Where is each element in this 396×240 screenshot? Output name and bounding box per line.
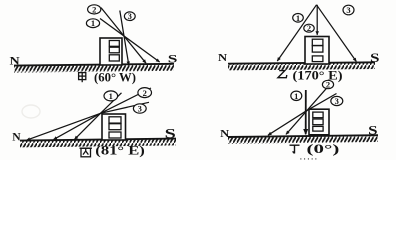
svg-text:1: 1 — [109, 91, 113, 101]
label circled 3 (bing) — [133, 104, 146, 114]
svg-text:1: 1 — [294, 91, 298, 101]
label circled 3 (jia) — [124, 11, 135, 21]
label circled 2 (ding) — [322, 80, 333, 90]
scan artifact faint circle — [22, 105, 40, 118]
svg-text:.....: ..... — [300, 154, 319, 161]
window 1 (ding) — [313, 112, 323, 118]
label circled 3 (ding) — [331, 96, 343, 106]
svg-text:(170° E): (170° E) — [293, 68, 343, 83]
building (ding) — [309, 109, 329, 135]
svg-text:1: 1 — [91, 18, 95, 28]
caption glyph JIA — [79, 73, 86, 83]
wire right slope ray 3 (yi) — [317, 5, 357, 62]
ground hatch band (bing) — [20, 139, 176, 147]
caption glyph DING — [290, 145, 300, 153]
svg-text:1: 1 — [296, 13, 300, 23]
caption glyph YI — [278, 71, 287, 78]
svg-text:N: N — [218, 53, 228, 64]
svg-text:3: 3 — [138, 104, 142, 114]
window 3 (ding) — [313, 126, 323, 131]
wire vertical ray 1 (ding) — [305, 90, 307, 134]
window 1 (bing) — [109, 117, 121, 123]
ground hatch band (jia) — [14, 64, 174, 72]
svg-text:2: 2 — [92, 4, 96, 14]
wire ray 1 (bing) — [75, 93, 122, 140]
label circled 1 (ding) — [291, 91, 302, 101]
ground line (jia) — [14, 64, 174, 66]
wire ray 3 (bing) — [27, 102, 150, 140]
svg-text:2: 2 — [326, 80, 330, 90]
window 1 (jia) — [109, 41, 119, 47]
wire ray 1 (jia) — [100, 19, 160, 63]
ground hatch band (yi) — [228, 63, 375, 71]
window 2 (bing) — [109, 124, 121, 130]
wire ray 2 (bing) — [54, 88, 152, 140]
label circled 1 (jia) — [86, 18, 99, 28]
label circled 3 (yi) — [343, 5, 354, 15]
wire ray 2 (ding) — [286, 84, 330, 134]
svg-text:(60° W): (60° W) — [94, 69, 136, 84]
svg-text:3: 3 — [335, 96, 339, 106]
building (jia) — [100, 38, 122, 65]
ground line (yi) — [228, 62, 375, 63]
wire vertical ray 2 (yi) — [316, 5, 318, 35]
wire ray 3 (ding) — [268, 94, 337, 136]
svg-text:2: 2 — [143, 88, 147, 98]
label circled 2 (bing) — [138, 88, 152, 98]
ground hatch band (ding) — [228, 136, 378, 144]
svg-text:(81° E): (81° E) — [95, 143, 145, 158]
ground line (bing) — [20, 139, 176, 141]
window 1 (yi) — [312, 39, 323, 45]
window 2 (ding) — [313, 119, 323, 125]
window 2 (yi) — [312, 46, 323, 53]
label circled 2 (jia) — [88, 4, 101, 14]
label circled 1 (yi) — [293, 13, 304, 23]
svg-text:2: 2 — [307, 23, 311, 33]
ground line (ding) — [228, 135, 378, 137]
wire ray 3 (jia) — [120, 11, 129, 66]
window 3 (yi) — [312, 56, 323, 62]
wire ray 2 (jia) — [101, 8, 146, 64]
building (bing) — [102, 114, 126, 140]
label circled 2 (yi) — [304, 23, 314, 33]
svg-text:3: 3 — [346, 5, 350, 15]
window 3 (jia) — [109, 55, 119, 61]
building (yi) — [305, 37, 329, 65]
wire left slope ray 1 (yi) — [277, 5, 316, 61]
label circled 1 (bing) — [104, 91, 118, 101]
svg-text:3: 3 — [128, 11, 132, 21]
caption glyph BING — [80, 148, 93, 157]
window 2 (jia) — [109, 47, 119, 53]
window 3 (bing) — [109, 132, 121, 138]
